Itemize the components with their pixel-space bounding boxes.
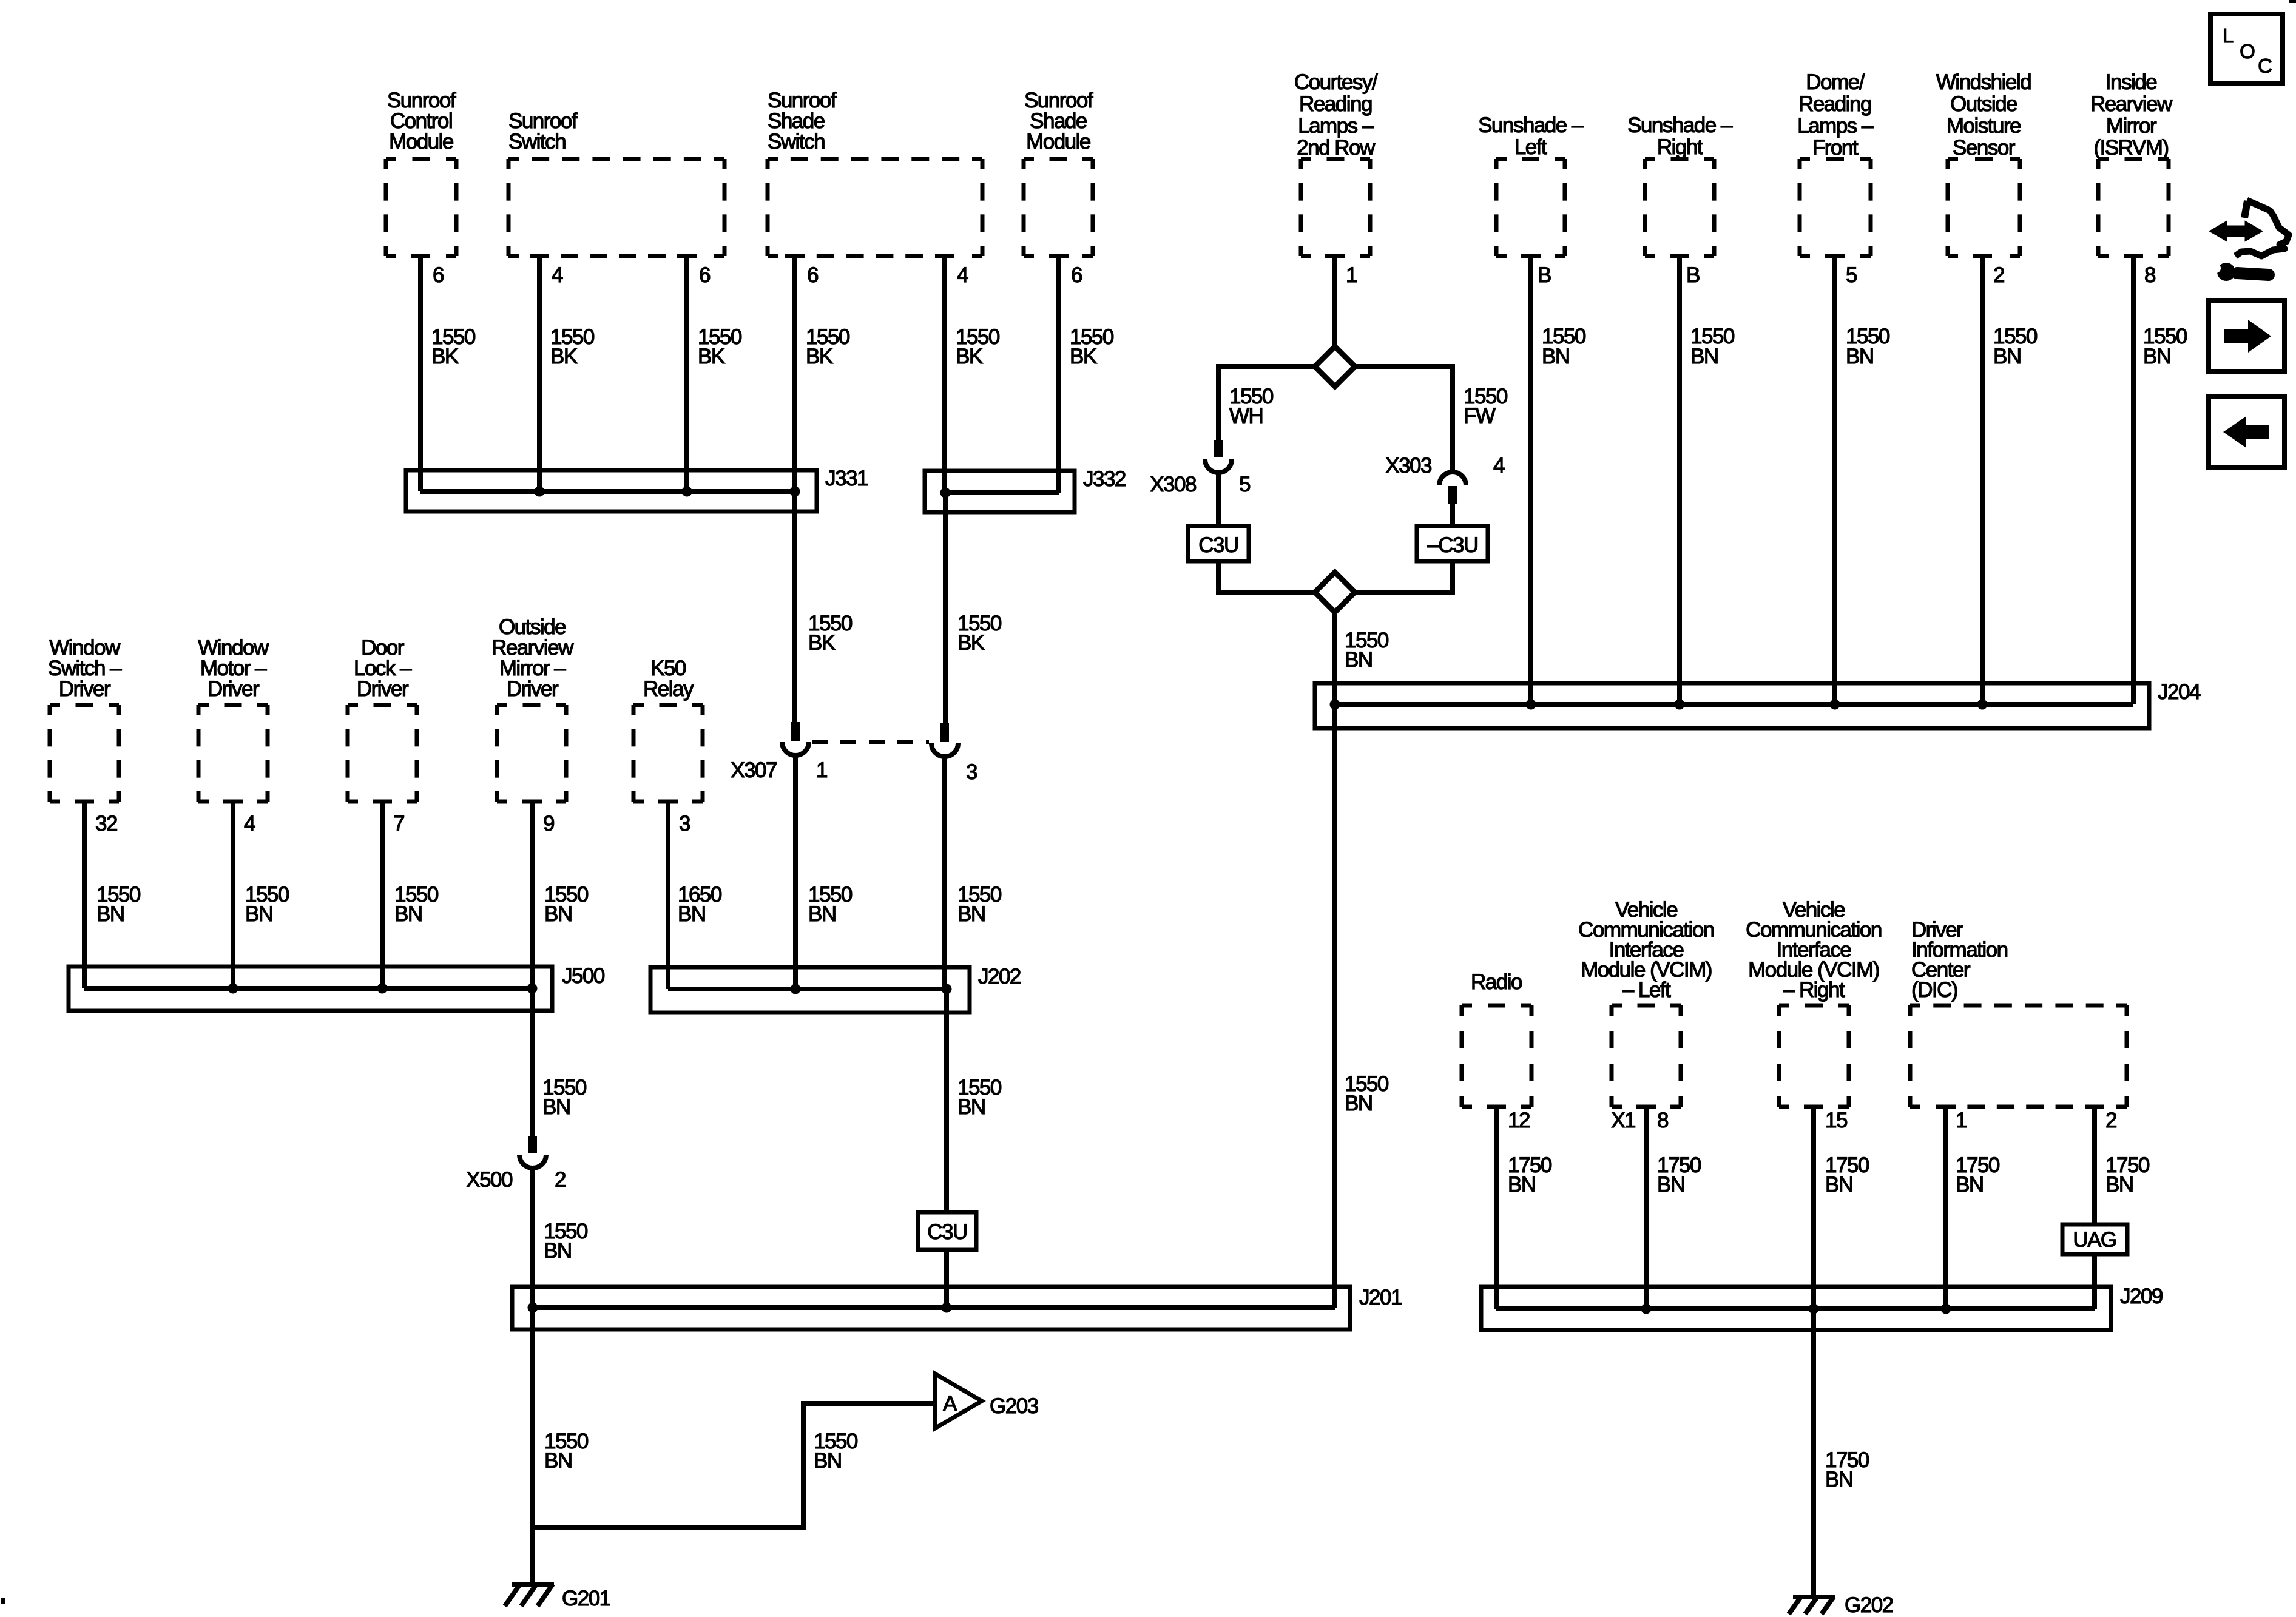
wire 1550 BN (J202 to C3U) xyxy=(947,989,1002,1212)
svg-text:X303: X303 xyxy=(1385,454,1431,478)
splice diamond (bottom) xyxy=(1315,572,1355,612)
svg-text:BN: BN xyxy=(1690,345,1718,368)
svg-text:C3U: C3U xyxy=(1198,533,1238,557)
svg-text:6: 6 xyxy=(1071,263,1082,287)
svg-text:BN: BN xyxy=(96,902,124,926)
svg-text:8: 8 xyxy=(1657,1109,1668,1132)
wire 1750 BN (Radio to J209) xyxy=(1496,1107,1552,1309)
wire 1550 BK (J331 to X307 pin1) xyxy=(795,491,853,723)
wire 1550 BN (J204 to J201) xyxy=(1335,704,1389,1308)
svg-text:Dome/: Dome/ xyxy=(1806,70,1865,94)
svg-text:BN: BN xyxy=(957,902,985,926)
connector box: Window Motor - Driver xyxy=(198,636,269,802)
svg-text:4: 4 xyxy=(244,812,255,836)
svg-text:J332: J332 xyxy=(1083,467,1126,491)
svg-text:1: 1 xyxy=(1346,263,1357,287)
wire 1550 FW (diamond to X303) xyxy=(1355,366,1508,473)
svg-text:BN: BN xyxy=(1542,345,1570,368)
splice pack J209 xyxy=(1481,1284,2163,1330)
connector box: Sunshade - Right xyxy=(1627,113,1733,256)
svg-text:Switch: Switch xyxy=(508,130,566,154)
pin 6 (Sunroof Shade Switch) xyxy=(807,263,818,287)
page corner tick xyxy=(2289,0,2296,3)
connector X307 pin 1 xyxy=(731,722,827,782)
connector X308 pin 5 xyxy=(1150,440,1250,496)
splice pack J202 xyxy=(650,965,1021,1013)
connector box: VCIM - Left xyxy=(1578,898,1714,1107)
svg-text:A: A xyxy=(943,1392,957,1416)
svg-text:9: 9 xyxy=(543,812,554,836)
wire 1750 BN (DIC pin1 to J209) xyxy=(1946,1107,2000,1309)
wire 1750 BN (DIC pin2 to UAG) xyxy=(2095,1107,2150,1224)
svg-text:BK: BK xyxy=(550,345,578,368)
wire 1550 BN (Window Switch to J500) xyxy=(84,802,141,988)
svg-text:BN: BN xyxy=(394,902,422,926)
ground G201 xyxy=(505,1584,610,1610)
svg-text:Left: Left xyxy=(1514,135,1547,159)
svg-text:Sunshade –: Sunshade – xyxy=(1627,113,1733,137)
svg-text:C3U: C3U xyxy=(927,1220,967,1244)
wire 1750 BN (VCIM Right to J209) xyxy=(1814,1107,1869,1309)
svg-text:4: 4 xyxy=(552,263,563,287)
connector box: K50 Relay xyxy=(633,657,703,802)
connector box: Sunroof Switch xyxy=(508,109,724,256)
splice pack J204 xyxy=(1315,680,2201,728)
wire 1750 BN (J209 to G202) xyxy=(1814,1309,1869,1597)
svg-text:FW: FW xyxy=(1464,404,1496,428)
wire (C3U to J201) xyxy=(944,1250,949,1308)
svg-text:5: 5 xyxy=(1846,263,1857,287)
connector box: Courtesy/Reading Lamps - 2nd Row xyxy=(1294,70,1378,256)
pin 1 (DIC) xyxy=(1956,1109,1967,1132)
svg-text:6: 6 xyxy=(807,263,818,287)
svg-text:BN: BN xyxy=(2143,345,2171,368)
svg-text:Reading: Reading xyxy=(1299,92,1372,116)
legend box LOC xyxy=(2210,14,2283,84)
svg-text:Lamps –: Lamps – xyxy=(1797,114,1874,138)
svg-text:G202: G202 xyxy=(1845,1593,1893,1617)
svg-text:Sunshade –: Sunshade – xyxy=(1478,113,1584,137)
svg-text:BN: BN xyxy=(1993,345,2021,368)
svg-text:BN: BN xyxy=(1846,345,1874,368)
connector box: Sunroof Control Module xyxy=(386,89,456,256)
pin 5 (Dome Lamps) xyxy=(1846,263,1857,287)
dashed link X307 xyxy=(812,740,929,744)
pin 4 (Window Motor) xyxy=(244,812,255,836)
svg-text:BK: BK xyxy=(1070,345,1097,368)
svg-text:Driver: Driver xyxy=(357,677,409,701)
wire 1550 BK (Sunroof Switch pin4 to J331) xyxy=(539,256,595,491)
svg-text:G203: G203 xyxy=(990,1394,1038,1418)
wire 1550 BN (Moisture Sensor to J204) xyxy=(1982,256,2038,704)
connector X307 pin 3 xyxy=(931,723,977,784)
svg-text:Radio: Radio xyxy=(1471,970,1522,994)
wire 1550 BK (Shade Switch pin4 to J332) xyxy=(945,256,1000,493)
svg-text:BN: BN xyxy=(1345,648,1373,672)
svg-text:BK: BK xyxy=(431,345,459,368)
wire 1550 BN (Door Lock to J500) xyxy=(382,802,439,988)
pin 12 (Radio) xyxy=(1508,1109,1530,1132)
connector box: Sunshade - Left xyxy=(1478,113,1584,256)
svg-text:Sensor: Sensor xyxy=(1953,136,2016,160)
splice pack J500 xyxy=(69,964,605,1011)
svg-text:BK: BK xyxy=(808,631,836,655)
wire 1550 WH (diamond to X308) xyxy=(1218,366,1315,440)
svg-text:X1: X1 xyxy=(1611,1109,1635,1132)
pin 32 (Window Switch) xyxy=(95,812,117,836)
fuse C3U (left) xyxy=(1188,526,1249,561)
svg-text:7: 7 xyxy=(393,812,404,836)
svg-text:Driver: Driver xyxy=(507,677,559,701)
svg-text:BN: BN xyxy=(544,1449,572,1473)
pin 2 (Moisture Sensor) xyxy=(1993,263,2004,287)
wire 1550 BN (Outside Rearview Mirror to J500) xyxy=(532,802,589,988)
svg-text:X500: X500 xyxy=(466,1168,513,1192)
svg-text:BN: BN xyxy=(544,902,572,926)
fuse C3U (lower) xyxy=(918,1212,976,1250)
svg-text:32: 32 xyxy=(95,812,117,836)
svg-text:BN: BN xyxy=(1345,1092,1373,1115)
splice pack J331 xyxy=(406,467,868,511)
wire 1550 BN (Dome Lamps to J204) xyxy=(1835,256,1890,704)
svg-text:6: 6 xyxy=(699,263,710,287)
svg-text:BN: BN xyxy=(1825,1468,1853,1491)
connector X303 pin 4 xyxy=(1385,454,1505,504)
svg-text:BK: BK xyxy=(956,345,983,368)
pin 1 (Courtesy Lamps) xyxy=(1346,263,1357,287)
svg-text:– Left: – Left xyxy=(1622,978,1671,1002)
svg-text:BN: BN xyxy=(1825,1173,1853,1197)
svg-text:BK: BK xyxy=(957,631,985,655)
svg-text:BN: BN xyxy=(678,902,706,926)
pin 3 (K50 Relay) xyxy=(679,812,690,836)
svg-text:BN: BN xyxy=(957,1095,985,1119)
svg-text:BN: BN xyxy=(2105,1173,2133,1197)
connector box: Outside Rearview Mirror - Driver xyxy=(491,615,574,802)
wire 1750 BN (VCIM Left to J209) xyxy=(1646,1107,1701,1309)
legend icon: right arrow box xyxy=(2209,300,2284,371)
splice pack J201 xyxy=(512,1286,1402,1329)
connector box: VCIM - Right xyxy=(1746,898,1882,1107)
svg-text:Moisture: Moisture xyxy=(1947,114,2021,138)
wire 1550 BK (J332 to X307 pin3) xyxy=(945,493,1002,724)
svg-text:–C3U: –C3U xyxy=(1427,533,1477,557)
wire 1550 BN (Sunshade Right to J204) xyxy=(1680,256,1735,704)
wire 1550 BN (branch to G203) xyxy=(533,1403,935,1528)
svg-text:Mirror: Mirror xyxy=(2106,114,2157,138)
svg-text:BK: BK xyxy=(698,345,725,368)
connector box: Sunroof Shade Module xyxy=(1024,89,1093,256)
pin 9 (Outside Rearview Mirror) xyxy=(543,812,554,836)
svg-text:6: 6 xyxy=(433,263,444,287)
wire 1550 BN (Sunshade Left to J204) xyxy=(1531,256,1586,704)
svg-text:BN: BN xyxy=(1657,1173,1685,1197)
svg-text:L: L xyxy=(2223,24,2234,47)
connector box: Windshield Outside Moisture Sensor xyxy=(1936,70,2031,256)
svg-text:5: 5 xyxy=(1239,473,1250,496)
ground symbol G203 (triangle A) xyxy=(935,1374,1038,1428)
pin 6 (Sunroof Switch) xyxy=(699,263,710,287)
svg-text:2: 2 xyxy=(2105,1109,2116,1132)
wire 1550 BN (diamond to J204) xyxy=(1335,612,1389,704)
svg-text:Right: Right xyxy=(1657,135,1703,159)
svg-text:15: 15 xyxy=(1825,1109,1847,1132)
svg-text:X307: X307 xyxy=(731,758,777,782)
wire 1550 BK (Shade Switch pin6 to J331) xyxy=(795,256,850,491)
wire 1650 BN (K50 Relay to J202) xyxy=(668,802,722,989)
wire 1550 BN (J201 to G201) xyxy=(533,1308,589,1584)
svg-text:4: 4 xyxy=(1493,454,1505,478)
svg-text:Outside: Outside xyxy=(1950,92,2017,116)
svg-text:BN: BN xyxy=(1508,1173,1536,1197)
svg-text:J331: J331 xyxy=(825,467,868,490)
wire (-C3U to lower splice diamond) xyxy=(1355,561,1453,592)
ground G202 xyxy=(1789,1593,1893,1617)
pin 4 (Sunroof Shade Switch) xyxy=(957,263,968,287)
svg-text:Module: Module xyxy=(389,130,453,154)
svg-text:3: 3 xyxy=(679,812,690,836)
wire 1550 BK (Shade Module pin6 to J332) xyxy=(1059,256,1114,493)
svg-text:– Right: – Right xyxy=(1783,978,1845,1002)
svg-text:Relay: Relay xyxy=(643,677,694,701)
svg-text:J209: J209 xyxy=(2120,1284,2163,1308)
wire (X308 to C3U) xyxy=(1216,473,1221,526)
svg-text:Windshield: Windshield xyxy=(1936,70,2031,94)
svg-text:BN: BN xyxy=(544,1239,572,1263)
connector box: Window Switch - Driver xyxy=(48,636,122,802)
connector box: Driver Information Center (DIC) xyxy=(1910,918,2127,1107)
svg-text:Switch: Switch xyxy=(768,130,825,154)
svg-text:1: 1 xyxy=(1956,1109,1967,1132)
svg-text:C: C xyxy=(2258,55,2272,77)
svg-text:BN: BN xyxy=(808,902,836,926)
legend icon: left arrow box xyxy=(2209,396,2284,467)
wire 1550 BN (X307 pin3 to J202) xyxy=(945,756,1002,989)
svg-text:Rearview: Rearview xyxy=(2090,92,2173,116)
svg-text:J500: J500 xyxy=(562,964,605,988)
svg-text:Front: Front xyxy=(1812,136,1859,160)
svg-text:Driver: Driver xyxy=(208,677,260,701)
svg-text:BN: BN xyxy=(245,902,273,926)
svg-text:Module: Module xyxy=(1026,130,1090,154)
wire 1550 BN (X307 pin1 to J202) xyxy=(795,755,853,989)
svg-text:J204: J204 xyxy=(2158,680,2201,704)
pin 15 (VCIM Right) xyxy=(1825,1109,1847,1132)
svg-text:B: B xyxy=(1686,263,1700,287)
pin 8 (ISRVM) xyxy=(2144,263,2155,287)
pin 4 (Sunroof Switch) xyxy=(552,263,563,287)
svg-text:O: O xyxy=(2240,40,2255,62)
fuse UAG xyxy=(2062,1224,2127,1254)
connector box: Inside Rearview Mirror (ISRVM) xyxy=(2090,70,2173,256)
pin X1 8 (VCIM Left) xyxy=(1611,1109,1668,1132)
splice pack J332 xyxy=(925,467,1126,512)
svg-text:B: B xyxy=(1538,263,1551,287)
svg-text:2nd Row: 2nd Row xyxy=(1297,136,1376,160)
svg-text:BK: BK xyxy=(806,345,833,368)
wire 1550 BN (X500 to J201) xyxy=(533,1168,588,1308)
fuse -C3U (right) xyxy=(1417,526,1488,561)
svg-text:(DIC): (DIC) xyxy=(1911,978,1957,1002)
svg-text:Inside: Inside xyxy=(2105,70,2156,94)
svg-text:Courtesy/: Courtesy/ xyxy=(1294,70,1378,94)
wire 1550 BK (Sunroof Switch pin6 to J331) xyxy=(687,256,742,491)
svg-text:BN: BN xyxy=(542,1095,570,1119)
svg-text:8: 8 xyxy=(2144,263,2155,287)
page stray dot xyxy=(1,1598,5,1604)
connector X500 pin 2 xyxy=(466,1136,566,1192)
svg-text:1: 1 xyxy=(816,758,827,782)
wire (Courtesy pin1 to splice diamond) xyxy=(1332,256,1337,348)
wire (C3U to lower splice diamond) xyxy=(1218,561,1315,592)
splice diamond (top) xyxy=(1315,346,1355,387)
pin 7 (Door Lock) xyxy=(393,812,404,836)
svg-text:Reading: Reading xyxy=(1798,92,1871,116)
wire 1550 BN (J500 to X500) xyxy=(532,988,587,1136)
svg-text:WH: WH xyxy=(1229,404,1263,428)
svg-text:Driver: Driver xyxy=(59,677,111,701)
wire 1550 BK (SCM pin6 to J331) xyxy=(420,256,476,491)
svg-text:2: 2 xyxy=(1993,263,2004,287)
pin 6 (Sunroof Control Module) xyxy=(433,263,444,287)
svg-text:3: 3 xyxy=(966,760,977,784)
wire (X303 to -C3U) xyxy=(1450,504,1455,526)
svg-text:J201: J201 xyxy=(1359,1286,1402,1309)
svg-text:G201: G201 xyxy=(562,1587,610,1610)
connector box: Sunroof Shade Switch xyxy=(768,89,982,256)
connector box: Dome/Reading Lamps - Front xyxy=(1797,70,1874,256)
svg-text:UAG: UAG xyxy=(2073,1228,2116,1252)
svg-text:J202: J202 xyxy=(978,965,1021,988)
wire (UAG to J209) xyxy=(2092,1254,2097,1309)
wire 1550 BN (Window Motor to J500) xyxy=(233,802,289,988)
wire 1550 BN (ISRVM to J204) xyxy=(2133,256,2187,704)
svg-text:BN: BN xyxy=(814,1449,842,1473)
pin B (Sunshade Right) xyxy=(1686,263,1700,287)
svg-text:BN: BN xyxy=(1956,1173,1984,1197)
connector box: Radio xyxy=(1462,970,1531,1107)
svg-text:12: 12 xyxy=(1508,1109,1530,1132)
pin 6 (Sunroof Shade Module) xyxy=(1071,263,1082,287)
svg-text:X308: X308 xyxy=(1150,473,1196,496)
legend icon: double arrow with outline and wrench xyxy=(2210,200,2289,281)
svg-text:(ISRVM): (ISRVM) xyxy=(2093,136,2168,160)
pin B (Sunshade Left) xyxy=(1538,263,1551,287)
svg-text:Lamps –: Lamps – xyxy=(1298,114,1374,138)
connector box: Door Lock - Driver xyxy=(348,636,417,802)
svg-text:2: 2 xyxy=(555,1168,566,1192)
pin 2 (DIC) xyxy=(2105,1109,2116,1132)
svg-text:4: 4 xyxy=(957,263,968,287)
